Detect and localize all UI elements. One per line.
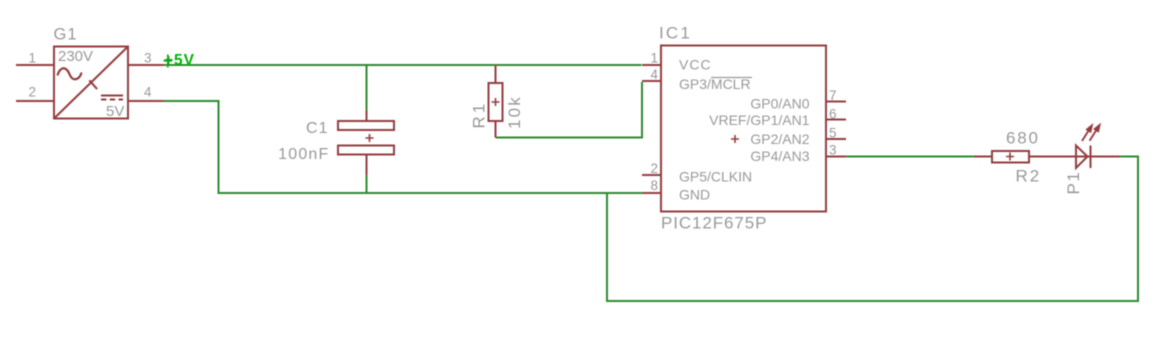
svg-text:6: 6	[829, 107, 837, 122]
svg-text:1: 1	[650, 51, 658, 66]
svg-text:VCC: VCC	[679, 57, 712, 73]
svg-text:10k: 10k	[505, 95, 524, 129]
svg-text:4: 4	[650, 67, 658, 82]
svg-text:R2: R2	[1016, 167, 1042, 186]
svg-text:C1: C1	[306, 120, 328, 137]
svg-text:GP3/MCLR: GP3/MCLR	[679, 76, 751, 92]
svg-text:3: 3	[829, 143, 837, 158]
svg-text:100nF: 100nF	[278, 146, 329, 163]
svg-text:GP5/CLKIN: GP5/CLKIN	[679, 169, 752, 185]
svg-text:3: 3	[144, 51, 152, 66]
svg-text:P1: P1	[1064, 171, 1083, 195]
svg-text:1: 1	[28, 51, 36, 66]
svg-text:8: 8	[650, 178, 658, 193]
svg-text:GP0/AN0: GP0/AN0	[750, 96, 809, 112]
svg-text:5V: 5V	[106, 103, 124, 120]
svg-text:4: 4	[144, 85, 152, 100]
svg-text:G1: G1	[54, 26, 78, 44]
svg-text:VREF/GP1/AN1: VREF/GP1/AN1	[709, 112, 810, 128]
svg-text:7: 7	[829, 88, 837, 103]
svg-text:2: 2	[650, 161, 658, 176]
svg-text:GP4/AN3: GP4/AN3	[750, 148, 809, 164]
svg-text:GP2/AN2: GP2/AN2	[750, 131, 809, 147]
svg-text:PIC12F675P: PIC12F675P	[661, 214, 767, 233]
svg-text:230V: 230V	[58, 48, 93, 65]
svg-text:R1: R1	[470, 101, 489, 129]
svg-text:5: 5	[829, 126, 837, 141]
svg-text:2: 2	[28, 85, 36, 100]
svg-text:IC1: IC1	[659, 24, 692, 43]
svg-text:680: 680	[1006, 129, 1040, 148]
svg-text:GND: GND	[679, 187, 710, 203]
